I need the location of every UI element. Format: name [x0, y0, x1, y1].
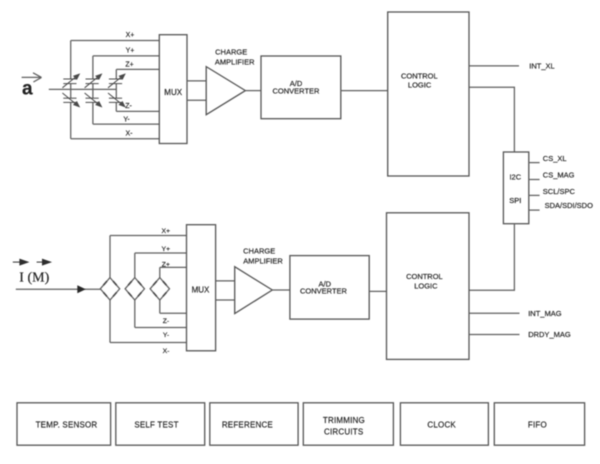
svg-text:SPI: SPI	[509, 196, 521, 205]
wire MUX to charge amplifier differential pair (bottom)	[216, 281, 235, 300]
svg-text:CLOCK: CLOCK	[427, 420, 456, 429]
block A/D converter (top)	[261, 56, 341, 119]
svg-text:Z-: Z-	[125, 103, 132, 110]
block MUX (magnetometer)	[187, 225, 216, 351]
op-amp charge amplifier (top)	[206, 67, 245, 115]
wire INT_MAG	[469, 312, 520, 314]
capacitor Y upper (variable)	[85, 74, 102, 88]
wire X- rail (top)	[71, 138, 160, 140]
wire charge amplifier to A/D converter (bottom)	[272, 289, 290, 291]
wire INT_XL	[469, 65, 519, 67]
svg-text:CONVERTER: CONVERTER	[300, 287, 348, 296]
wire Z sense column (top)	[115, 69, 117, 111]
svg-text:Y+: Y+	[162, 246, 171, 253]
svg-text:SELF TEST: SELF TEST	[134, 420, 178, 429]
block A/D converter (bottom)	[290, 256, 369, 320]
block CLOCK	[400, 403, 488, 445]
svg-text:I (M): I (M)	[19, 270, 49, 285]
wire control logic (top) to I2C/SPI block	[469, 87, 514, 152]
svg-text:a: a	[22, 79, 33, 100]
svg-text:REFERENCE: REFERENCE	[222, 420, 273, 429]
wire Y+ rail (top)	[93, 55, 159, 57]
svg-text:CONVERTER: CONVERTER	[273, 87, 321, 96]
wire Z- rail (bottom)	[160, 312, 187, 314]
wire Z bridge column (bottom)	[159, 267, 161, 313]
block control logic (top)	[388, 12, 469, 176]
svg-text:X+: X+	[126, 32, 135, 39]
svg-text:X-: X-	[126, 131, 134, 138]
block TEMP. SENSOR	[17, 403, 111, 445]
svg-text:X+: X+	[162, 228, 171, 235]
svg-text:Z-: Z-	[163, 318, 169, 325]
svg-text:CHARGE: CHARGE	[215, 48, 247, 57]
svg-text:LOGIC: LOGIC	[414, 282, 438, 291]
wire Y+ rail (bottom)	[135, 252, 187, 254]
capacitor X lower (variable)	[62, 93, 79, 107]
wire SCL/SPC stub	[529, 194, 540, 196]
svg-text:Y-: Y-	[163, 332, 169, 339]
block control logic (bottom)	[387, 213, 470, 360]
block FIFO	[494, 403, 584, 445]
accelerometer input vector label a	[22, 73, 42, 100]
wire X+ rail (bottom)	[110, 235, 187, 237]
block MUX (accelerometer)	[159, 35, 187, 144]
wire Y- rail (top)	[93, 123, 159, 125]
svg-text:DRDY_MAG: DRDY_MAG	[528, 330, 571, 339]
bridge sensor Z (magnetometer)	[150, 278, 169, 300]
wire MUX to charge amplifier differential pair (top)	[187, 81, 206, 100]
wire charge amplifier to A/D converter (top)	[245, 90, 261, 92]
label CHARGE AMPLIFIER (top)	[215, 48, 255, 67]
svg-text:I2C: I2C	[509, 172, 521, 181]
svg-text:FIFO: FIFO	[528, 420, 547, 429]
svg-text:LOGIC: LOGIC	[408, 81, 432, 90]
magnetic field direction arrows	[13, 259, 51, 265]
svg-text:Z+: Z+	[125, 62, 133, 69]
wire SDA/SDI/SDO stub	[529, 209, 540, 211]
block TRIMMING CIRCUITS	[303, 403, 393, 445]
wire Y- rail (bottom)	[135, 327, 187, 329]
wire CS_XL stub	[529, 162, 540, 164]
svg-text:CS_XL: CS_XL	[543, 154, 567, 163]
wire Y bridge column (bottom)	[134, 253, 136, 328]
label CHARGE AMPLIFIER (bottom)	[243, 247, 283, 266]
capacitor Y lower (variable)	[85, 93, 102, 107]
wire Y sense column (top)	[92, 56, 94, 124]
wire A/D converter to control logic (bottom)	[369, 290, 386, 292]
svg-text:AMPLIFIER: AMPLIFIER	[243, 257, 283, 266]
svg-text:CONTROL: CONTROL	[406, 272, 443, 281]
wire Z+ rail (top)	[116, 68, 159, 70]
svg-text:X-: X-	[163, 348, 170, 355]
block I2C / SPI interface	[503, 152, 528, 224]
wire X bridge column (bottom)	[109, 236, 111, 343]
wire X+ rail (top)	[71, 40, 160, 42]
svg-text:INT_MAG: INT_MAG	[528, 309, 562, 318]
op-amp charge amplifier (bottom)	[235, 267, 273, 314]
svg-text:Y+: Y+	[126, 48, 135, 55]
svg-text:SDA/SDI/SDO: SDA/SDI/SDO	[545, 201, 594, 210]
wire Z- rail (top)	[116, 110, 159, 112]
bridge sensor X (magnetometer)	[100, 278, 119, 300]
wire X sense column (top)	[70, 41, 72, 139]
capacitor X upper (variable)	[62, 74, 79, 88]
svg-text:CHARGE: CHARGE	[243, 247, 275, 256]
block REFERENCE	[210, 403, 298, 445]
wire CS_MAG stub	[529, 179, 540, 181]
wire I(M) input with arrowhead	[16, 285, 101, 293]
svg-text:SCL/SPC: SCL/SPC	[543, 187, 576, 196]
svg-text:CIRCUITS: CIRCUITS	[324, 428, 363, 437]
block SELF TEST	[116, 403, 205, 445]
svg-text:CONTROL: CONTROL	[401, 72, 438, 81]
wire DRDY_MAG	[469, 334, 520, 336]
wire I2C/SPI block to control logic (bottom)	[469, 224, 514, 291]
wire X- rail (bottom)	[110, 342, 187, 344]
svg-text:MUX: MUX	[192, 286, 210, 295]
svg-text:Z+: Z+	[162, 262, 170, 269]
capacitor Z lower (variable)	[108, 93, 125, 107]
wire A/D converter to control logic (top)	[341, 90, 388, 92]
bridge sensor Y (magnetometer)	[125, 278, 144, 300]
svg-text:AMPLIFIER: AMPLIFIER	[215, 58, 255, 67]
wire Z+ rail (bottom)	[160, 266, 187, 268]
svg-text:TEMP. SENSOR: TEMP. SENSOR	[36, 420, 98, 429]
svg-text:INT_XL: INT_XL	[529, 62, 554, 71]
svg-text:TRIMMING: TRIMMING	[323, 416, 365, 425]
capacitor Z upper (variable)	[108, 74, 125, 88]
svg-text:Y-: Y-	[123, 117, 130, 124]
wire common electrode (top)	[49, 88, 117, 90]
svg-text:CS_MAG: CS_MAG	[543, 171, 575, 180]
svg-text:MUX: MUX	[164, 88, 182, 97]
